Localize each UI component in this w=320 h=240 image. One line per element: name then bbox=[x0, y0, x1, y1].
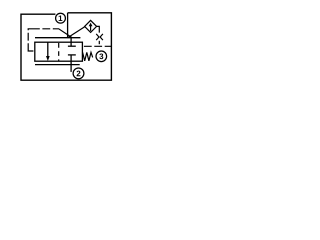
pilot diagonal bbox=[53, 29, 72, 38]
upper position line bbox=[35, 37, 80, 39]
port 3 digit bbox=[99, 53, 103, 59]
orifice line (dashed) bbox=[98, 41, 100, 47]
envelope boundary bbox=[21, 13, 111, 80]
check valve outlet bbox=[97, 26, 100, 32]
flow path arrow head bbox=[46, 56, 50, 61]
blocked port top T stub bbox=[70, 38, 72, 47]
orifice chevron right bbox=[100, 34, 103, 40]
flow path arrow shaft bbox=[47, 42, 49, 57]
port 3 circle bbox=[96, 51, 107, 62]
spring bbox=[83, 52, 93, 60]
lower position line bbox=[35, 64, 80, 66]
position divider (dashed) bbox=[58, 43, 60, 61]
pilot line left (dashed) bbox=[28, 29, 53, 51]
port 1 circle bbox=[56, 13, 66, 23]
pilot line right (dashed) bbox=[84, 45, 112, 47]
check valve arrow bbox=[90, 26, 92, 31]
blocked port bottom T bar bbox=[68, 54, 76, 56]
port 2 circle bbox=[73, 68, 84, 79]
valve body bbox=[35, 42, 83, 61]
port 1 line bbox=[67, 13, 69, 38]
blocked port top T bar bbox=[68, 45, 76, 47]
port 2 stub bbox=[70, 55, 72, 72]
port 1 digit bbox=[59, 15, 63, 21]
port 2 digit bbox=[77, 71, 81, 77]
check valve diamond bbox=[85, 20, 97, 32]
check valve branch diagonal bbox=[68, 27, 86, 38]
orifice chevron left bbox=[96, 34, 99, 40]
